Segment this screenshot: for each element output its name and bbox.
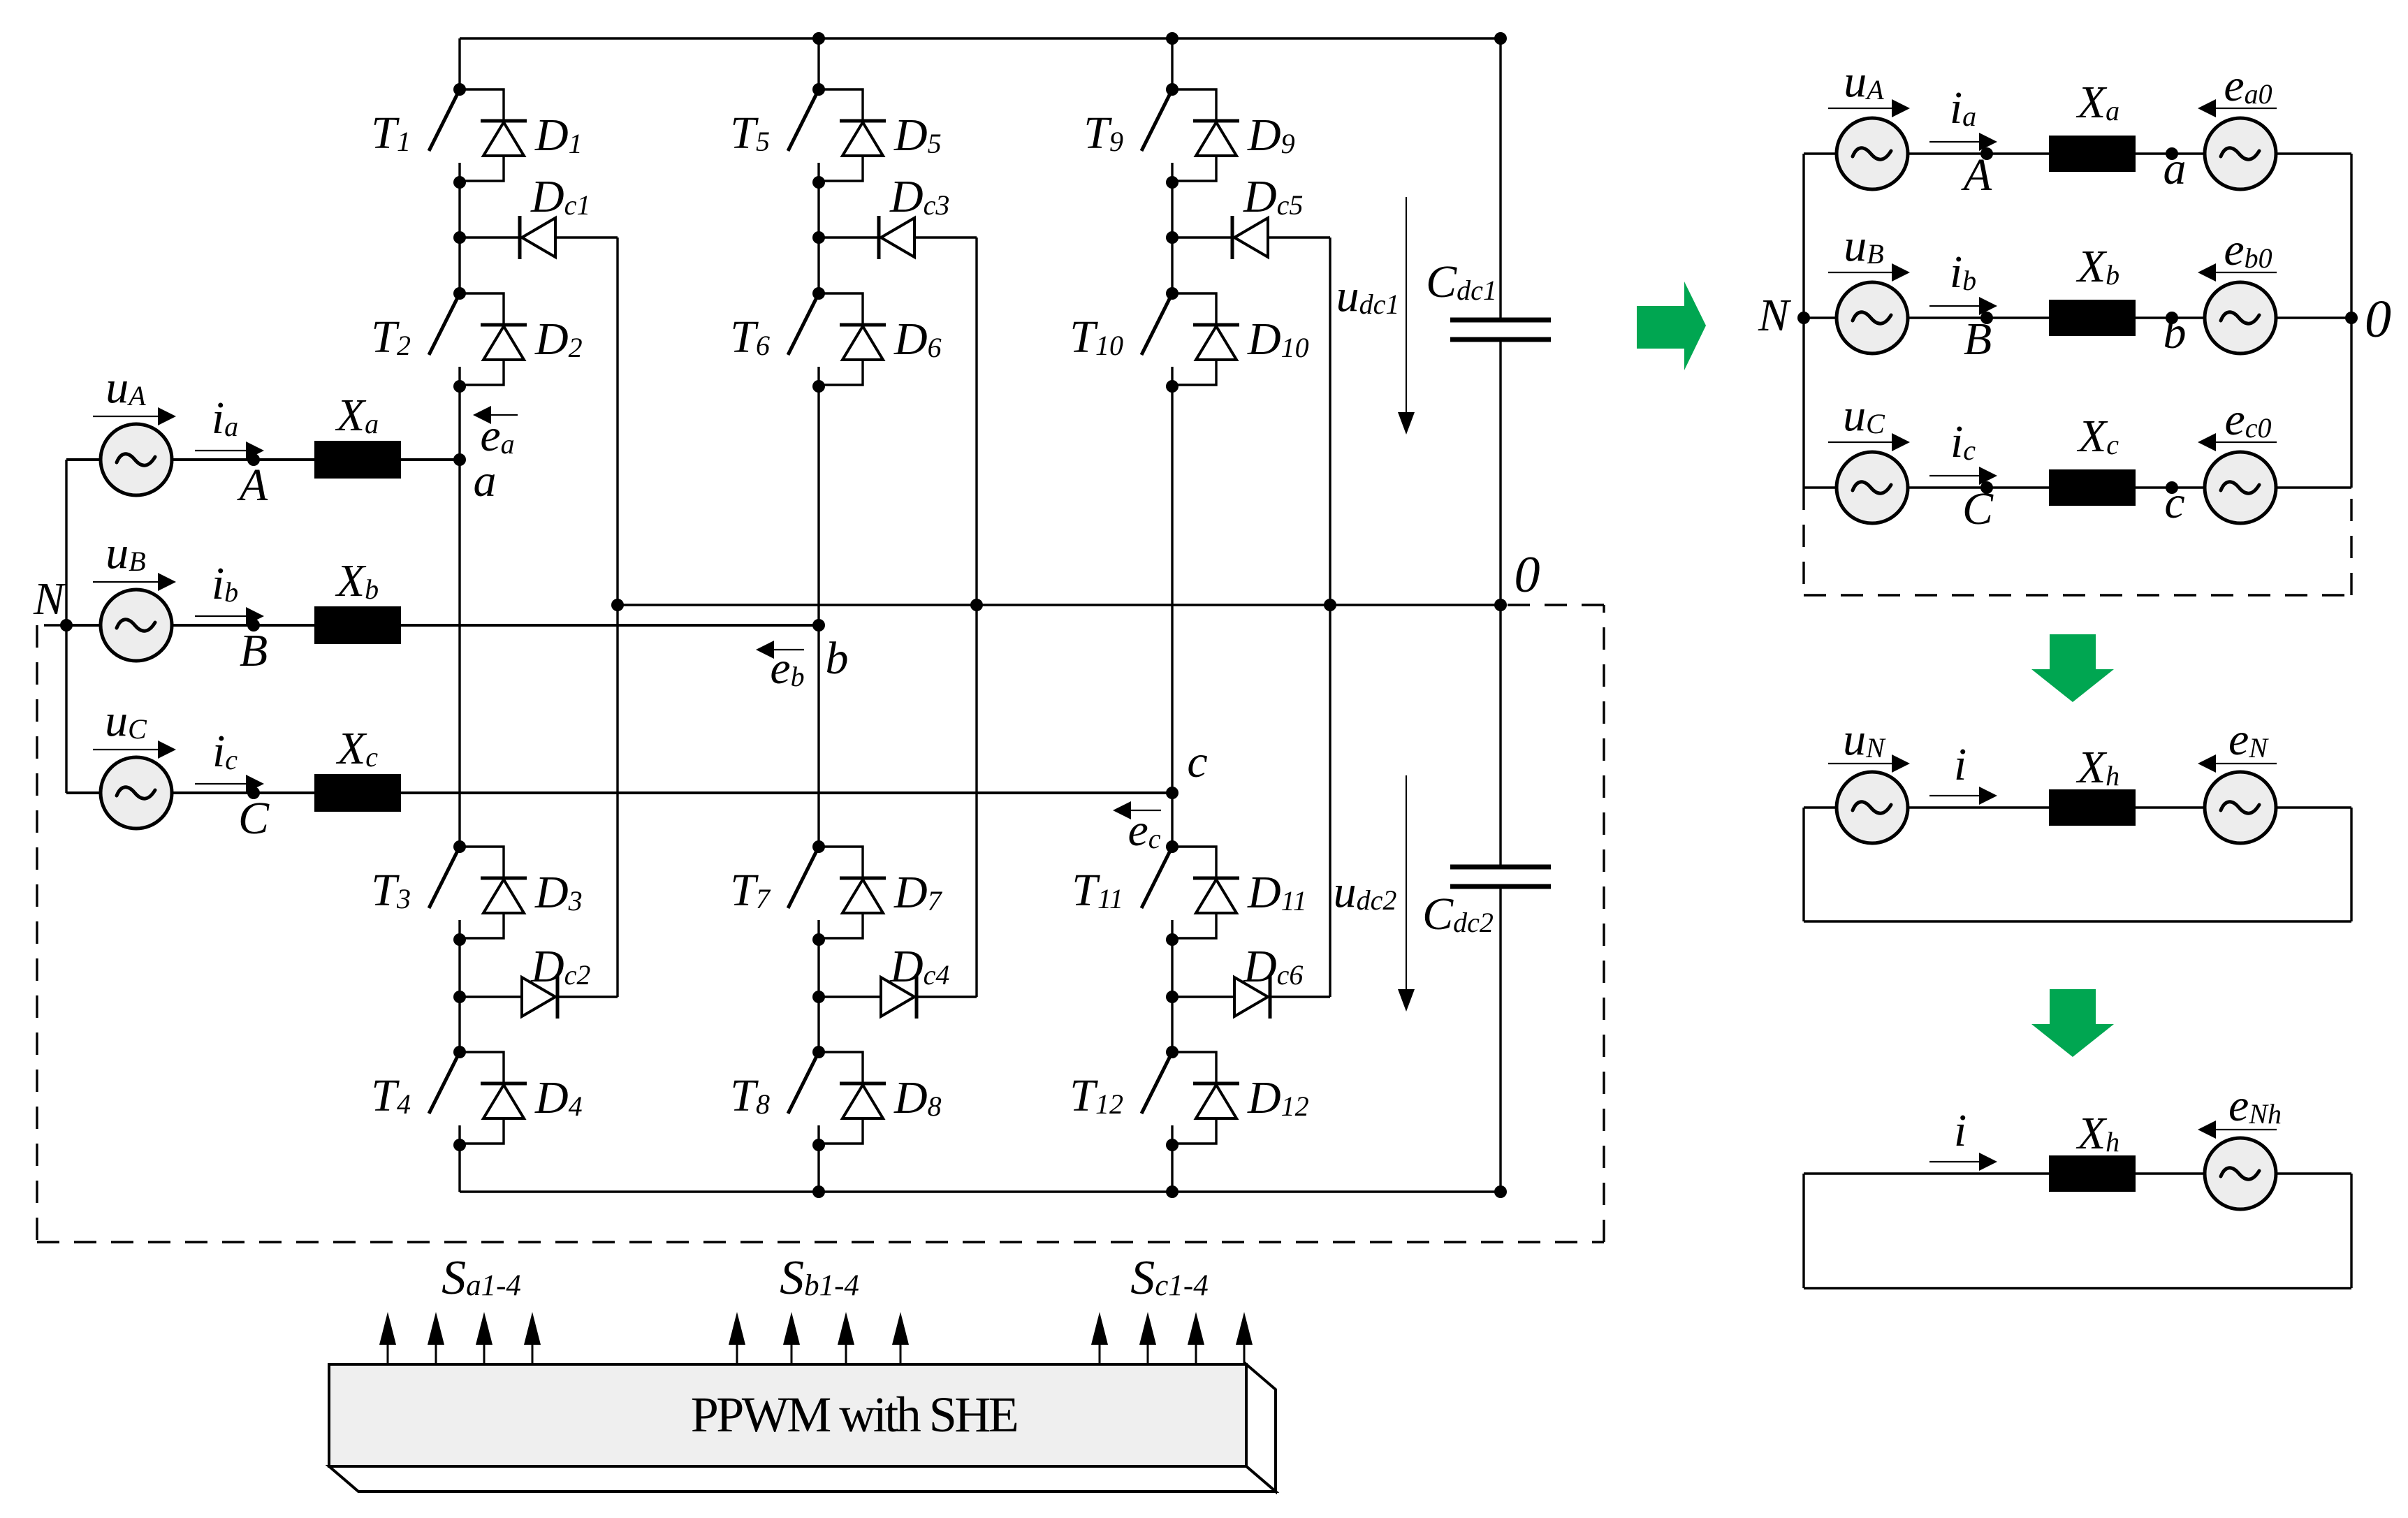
svg-text:b: b: [826, 633, 849, 684]
svg-text:c: c: [1187, 736, 1207, 787]
svg-text:PPWM with SHE: PPWM with SHE: [691, 1387, 1017, 1443]
svg-text:N: N: [33, 574, 67, 625]
svg-text:B: B: [1964, 314, 1992, 365]
svg-text:A: A: [1961, 149, 1992, 200]
svg-text:B: B: [240, 625, 268, 676]
svg-text:c: c: [2164, 477, 2184, 528]
svg-text:A: A: [237, 460, 268, 511]
svg-text:0: 0: [1515, 546, 1540, 604]
svg-text:0: 0: [2365, 290, 2391, 349]
svg-text:N: N: [1758, 290, 1792, 341]
svg-text:i: i: [1954, 739, 1966, 790]
svg-text:b: b: [2163, 307, 2187, 358]
svg-text:C: C: [238, 793, 270, 844]
svg-text:i: i: [1954, 1105, 1966, 1156]
svg-text:C: C: [1962, 483, 1994, 534]
svg-text:a: a: [474, 455, 497, 506]
svg-text:a: a: [2163, 143, 2187, 194]
